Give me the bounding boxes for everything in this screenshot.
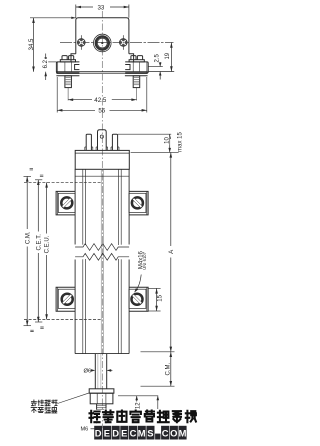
- extension line 34.5 top: [30, 17, 76, 19]
- svg-text:E: E: [104, 428, 110, 439]
- threaded tip: [97, 404, 106, 424]
- equality marks: [30, 169, 44, 332]
- clamp body: [56, 62, 79, 73]
- terminal pin center: [98, 130, 107, 151]
- break zigzag lower: [75, 253, 129, 260]
- nut bumps: [62, 56, 67, 60]
- washer: [60, 60, 75, 62]
- svg-text:D: D: [95, 428, 102, 439]
- svg-text:M6: M6: [81, 427, 89, 433]
- dimension 34.5: [29, 18, 35, 72]
- top view body outline: [76, 18, 129, 54]
- centerline horizontal top view: [60, 42, 174, 44]
- dashed travel reference lower: [24, 319, 103, 321]
- dimension 56: [57, 77, 147, 115]
- svg-text:10: 10: [164, 137, 170, 144]
- body lines lower: [75, 176, 129, 353]
- svg-text:C.M.: C.M.: [25, 231, 31, 244]
- terminal pin left: [86, 134, 91, 150]
- dimension C.E.T. left: [35, 180, 42, 322]
- svg-text:D: D: [112, 428, 119, 439]
- svg-text:C.E.T.: C.E.T.: [36, 234, 42, 251]
- svg-text:33: 33: [97, 5, 104, 12]
- reference line pin top right: [118, 133, 171, 135]
- note leader to nut: [58, 393, 90, 404]
- note line 1 vector glyphs: [31, 400, 57, 413]
- svg-text:C.E.U.: C.E.U.: [45, 235, 51, 253]
- svg-text:15: 15: [158, 294, 164, 301]
- stud: [65, 76, 72, 88]
- clamp hook: [75, 65, 80, 70]
- centerline vertical axis: [101, 11, 103, 428]
- svg-text:M: M: [179, 428, 187, 439]
- output rod: [94, 354, 96, 389]
- lower left ear: [56, 287, 75, 311]
- upper left ear: [56, 191, 75, 215]
- dimension 10: [163, 134, 171, 152]
- body outer and inner lines upper: [75, 169, 129, 258]
- svg-text:C.M.: C.M.: [165, 363, 171, 376]
- svg-text:34.5: 34.5: [29, 38, 35, 50]
- terminal pin right: [112, 134, 117, 150]
- dimension 33: [76, 5, 129, 18]
- dimension diameter 6: [83, 369, 112, 375]
- washer: [89, 389, 114, 393]
- dimension C.M. left: [24, 176, 32, 325]
- chinese note text: [31, 400, 57, 413]
- svg-text:2.5: 2.5: [155, 53, 161, 62]
- right clamp assembly (mirror): [125, 56, 148, 101]
- label M4x16 UNI 6107: [134, 250, 147, 292]
- screw left top view: [77, 35, 85, 50]
- svg-text:M: M: [138, 428, 146, 439]
- left clamp assembly: [56, 56, 79, 101]
- mounting plate rails: [56, 71, 147, 73]
- svg-text:max 15: max 15: [177, 132, 183, 152]
- dashed travel reference upper: [24, 181, 103, 183]
- svg-text:42.5: 42.5: [94, 97, 107, 104]
- reference line cap top right: [131, 151, 179, 153]
- svg-text:6.2: 6.2: [43, 59, 49, 68]
- watermark chinese line: [90, 411, 196, 423]
- upper right ear (mirror): [129, 191, 148, 215]
- dimension 15 right ear: [148, 288, 164, 311]
- reference line rod tip: [118, 395, 158, 397]
- central boss top view: [94, 34, 112, 52]
- svg-text:Ø6: Ø6: [83, 369, 92, 375]
- svg-text:19: 19: [165, 52, 171, 59]
- dimension 2.5: [148, 53, 163, 79]
- dimension 42.5: [68, 97, 137, 104]
- dimension C.M. right: [165, 352, 172, 386]
- svg-text:12: 12: [135, 402, 141, 409]
- cap: [75, 150, 129, 169]
- reference line C.M. bottom: [141, 385, 175, 387]
- watermark dedecms blocks: [94, 426, 186, 440]
- screw right top view: [119, 35, 127, 50]
- svg-text:S: S: [147, 428, 153, 439]
- dimension 12: [134, 396, 141, 412]
- tick right of rod tip line: [157, 396, 159, 409]
- dimension C.E.U. left: [45, 182, 51, 319]
- label M6: [81, 427, 96, 433]
- reference line A bottom: [141, 351, 175, 353]
- break zigzag upper: [75, 244, 129, 251]
- dimension 19: [148, 43, 174, 72]
- svg-text:UNI 6107: UNI 6107: [142, 251, 147, 269]
- lower right ear (mirror): [129, 287, 148, 311]
- svg-text:E: E: [121, 428, 127, 439]
- body step to clamps: [71, 54, 76, 62]
- svg-text:C: C: [130, 428, 137, 439]
- svg-text:56: 56: [98, 108, 105, 115]
- nut: [90, 393, 113, 404]
- svg-text:C: C: [162, 428, 169, 439]
- dimension 6.2: [42, 54, 57, 81]
- svg-text:O: O: [170, 428, 177, 439]
- dimension A: [168, 152, 175, 351]
